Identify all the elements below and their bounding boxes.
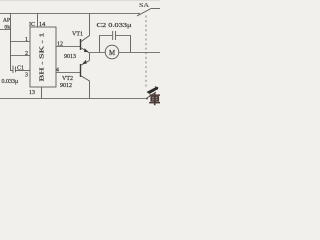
wire top supply rail	[0, 13, 139, 15]
component box BP (cut off at left edge)	[0, 14, 11, 30]
wire IC pin 2	[11, 55, 31, 57]
svg-text:AP: AP	[3, 18, 10, 24]
svg-text:SA: SA	[139, 2, 149, 9]
svg-text:3: 3	[25, 73, 28, 79]
switch SA blade	[137, 9, 151, 17]
wire IC pin 14 to rail	[37, 14, 39, 28]
arrow VT1 emitter	[84, 48, 89, 52]
svg-text:VT1: VT1	[72, 32, 83, 38]
IC U1 BH-SK-1 box	[30, 27, 56, 87]
wire IC pin 13 to ground rail	[41, 87, 43, 99]
switch contact dot bottom	[146, 98, 148, 100]
capacitor C2	[100, 31, 131, 53]
svg-text:VT2: VT2	[62, 76, 73, 82]
wire IC pin 4 to VT2 base	[56, 72, 80, 74]
switch SA lower pole blade	[147, 92, 156, 98]
wire motor right to edge	[119, 52, 161, 54]
svg-text:12: 12	[57, 42, 63, 48]
wire bottom ground rail	[0, 98, 147, 100]
svg-text:0k: 0k	[4, 25, 10, 31]
wire IC pin 1	[11, 41, 31, 43]
wire left vertical from box to C1 node	[10, 30, 12, 72]
svg-text:M: M	[109, 50, 115, 57]
svg-text:C1: C1	[17, 66, 24, 72]
svg-text:1: 1	[25, 37, 28, 43]
paper background	[0, 0, 160, 110]
svg-text:9012: 9012	[60, 83, 72, 89]
svg-text:0.033μ: 0.033μ	[2, 79, 19, 85]
svg-text:13: 13	[29, 90, 35, 96]
dashed mechanical link of SA	[145, 16, 147, 89]
wire IC pin 3	[15, 70, 30, 72]
wire emitters junction to motor	[90, 52, 106, 54]
label box text AP / 0k	[3, 18, 10, 31]
capacitor C1	[11, 66, 16, 74]
transistor VT2 9012	[80, 64, 82, 77]
svg-text:車: 車	[149, 93, 160, 107]
svg-text:4: 4	[56, 68, 59, 74]
arrow SA lower blade tip (dark cap)	[147, 87, 159, 94]
wire IC pin 12 to VT1 base	[56, 46, 80, 48]
wire emitters vertical	[89, 53, 91, 61]
arrow VT2 emitter	[82, 60, 86, 64]
wire after switch to edge	[151, 8, 160, 10]
motor M	[105, 45, 119, 59]
svg-text:2: 2	[25, 51, 28, 57]
svg-text:BH - SK - 1: BH - SK - 1	[39, 33, 46, 82]
transistor VT1 9013	[80, 39, 82, 50]
svg-text:C2 0.033μ: C2 0.033μ	[97, 22, 133, 29]
svg-text:IC: IC	[29, 21, 35, 28]
switch contact dot top	[138, 13, 140, 15]
svg-text:9013: 9013	[64, 54, 76, 60]
svg-text:14: 14	[39, 21, 45, 28]
